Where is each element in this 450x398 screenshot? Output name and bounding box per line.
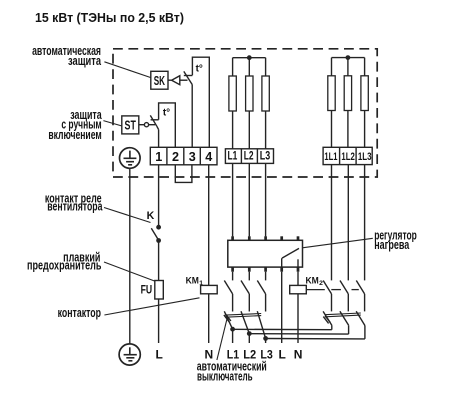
relay SK — [151, 71, 188, 89]
thermal contact t1 (SK sensor) — [184, 57, 210, 147]
svg-text:L2: L2 — [243, 349, 256, 361]
label: регулятор нагрева — [374, 229, 417, 253]
heater E1 — [229, 58, 236, 149]
svg-text:2: 2 — [319, 280, 323, 287]
wire L3 out — [265, 338, 267, 343]
svg-text:контактор: контактор — [58, 307, 102, 321]
wire terminal1 down — [158, 165, 160, 227]
heater bus 2 — [332, 57, 365, 59]
regulator U1 — [228, 240, 303, 267]
svg-text:1L1: 1L1 — [324, 150, 338, 163]
svg-text:L2: L2 — [244, 150, 254, 163]
pins U1 top — [233, 236, 298, 240]
heater bus 1 — [233, 57, 266, 59]
linkage KM2 — [306, 289, 359, 291]
wire KM2 to N — [297, 294, 299, 343]
contact KM1.3 — [257, 281, 265, 312]
wire pin2 to KM1 contact — [248, 272, 250, 281]
svg-text:t°: t° — [163, 108, 170, 119]
wire KM1 to N — [208, 294, 210, 343]
svg-text:1: 1 — [155, 150, 162, 164]
label: плавкий предохранитель — [27, 251, 101, 273]
leader to ST — [103, 121, 122, 126]
svg-text:FU: FU — [141, 284, 152, 297]
wire pin3 to KM1 contact — [265, 272, 267, 281]
breaker QF1 flag — [224, 314, 231, 322]
svg-text:t°: t° — [196, 64, 203, 75]
heater E2 — [246, 58, 253, 149]
heater E6 — [361, 58, 368, 148]
terminal block 1L1-1L3 — [323, 147, 372, 164]
svg-text:L: L — [279, 348, 286, 362]
label: контакт реле вентилятора — [45, 192, 103, 214]
wire pin1 to KM1 contact — [232, 272, 234, 281]
wire L3 column — [265, 163, 267, 236]
label: автоматический выключатель — [197, 360, 267, 384]
label: защита с ручным включением — [48, 108, 102, 142]
breaker QF1 pole2 — [241, 311, 249, 333]
wire pin4 to L — [281, 272, 283, 343]
wire terminal4 down — [208, 165, 210, 286]
svg-text:L3: L3 — [260, 349, 272, 362]
terminal block L1-L3 — [225, 149, 273, 164]
svg-text:выключатель: выключатель — [197, 370, 253, 384]
wire L1 out — [232, 329, 234, 343]
breaker QF2 pole1 — [323, 311, 332, 329]
svg-text:L3: L3 — [260, 150, 271, 162]
leader to K — [104, 208, 151, 223]
wire L2 column — [248, 163, 250, 236]
svg-text:4: 4 — [205, 150, 212, 164]
contact KM2.3 — [356, 281, 364, 312]
svg-text:включением: включением — [48, 128, 101, 142]
wire FU to L — [158, 299, 160, 343]
svg-text:L1: L1 — [228, 150, 238, 163]
leader to KM1 — [104, 298, 199, 315]
leader to SK — [104, 62, 150, 78]
heater E5 — [344, 58, 351, 148]
contactor coil KM2 — [290, 275, 323, 294]
contactor coil KM1 — [186, 275, 218, 294]
breaker QF1 pole1 — [224, 311, 232, 329]
svg-text:KM: KM — [186, 275, 199, 285]
svg-text:SK: SK — [154, 74, 165, 88]
jumper terminals 2-3 — [175, 165, 192, 183]
leader to breaker flag — [217, 318, 227, 360]
breaker QF1 pole3 — [257, 311, 265, 338]
thermal contact t2 (ST sensor) — [150, 103, 175, 147]
svg-text:ST: ST — [125, 119, 137, 133]
node bus1 — [247, 55, 252, 60]
wire L1 column — [232, 163, 234, 236]
dashed enclosure — [113, 49, 377, 177]
contact KM1.1 — [224, 281, 232, 312]
ground (PE) bottom — [119, 344, 140, 365]
svg-text:L: L — [156, 348, 163, 362]
label: автоматическая защита — [32, 44, 101, 68]
breaker QF1 linkage — [225, 314, 261, 318]
svg-text:предохранитель: предохранитель — [27, 259, 101, 273]
svg-text:3: 3 — [189, 150, 196, 164]
wire 1L3 down — [364, 165, 366, 281]
contact KM1.2 — [241, 281, 249, 312]
svg-text:нагрева: нагрева — [374, 239, 410, 253]
leader to regulator box — [302, 238, 373, 248]
svg-text:N: N — [294, 348, 303, 362]
terminal block 1-4 — [150, 147, 217, 165]
bus wire phase2 — [249, 333, 348, 335]
heater E4 — [328, 58, 335, 148]
wire K to FU — [158, 241, 160, 281]
node QF1 out2 — [247, 331, 252, 336]
svg-text:1L2: 1L2 — [341, 151, 354, 164]
breaker QF2 linkage — [325, 313, 361, 317]
wire 1L1 down — [331, 165, 333, 281]
svg-text:вентилятора: вентилятора — [47, 200, 103, 214]
svg-text:защита: защита — [68, 55, 102, 69]
svg-text:L1: L1 — [227, 349, 239, 362]
contact KM2.2 — [340, 281, 348, 312]
relay ST — [122, 116, 155, 134]
svg-text:1: 1 — [199, 280, 203, 287]
breaker QF2 pole2 — [340, 311, 349, 334]
contact KM2.1 — [323, 281, 331, 312]
bus wire phase1 — [233, 328, 332, 330]
svg-text:1L3: 1L3 — [358, 151, 372, 164]
pins U1 bottom — [233, 267, 298, 272]
svg-text:KM: KM — [306, 275, 319, 285]
node bus2 — [346, 55, 351, 60]
bus wire phase3 — [266, 338, 365, 340]
svg-text:N: N — [204, 348, 213, 362]
node QF1 out3 — [263, 336, 268, 341]
wire PE vertical — [129, 168, 131, 344]
fuse FU — [141, 281, 164, 300]
breaker QF2 pole3 — [356, 311, 365, 339]
svg-text:15 кВт (ТЭНы по 2,5 кВт): 15 кВт (ТЭНы по 2,5 кВт) — [35, 11, 184, 25]
heater E3 — [262, 58, 269, 149]
leader to FU — [104, 262, 155, 281]
node QF1 out1 — [230, 327, 235, 332]
wire pin5 to KM2 coil — [297, 272, 299, 286]
breaker QF2 flag — [323, 316, 330, 324]
ground (PE) top — [120, 148, 141, 169]
svg-text:K: K — [147, 210, 155, 222]
wire L2 out — [248, 334, 250, 343]
wire 1L2 down — [347, 165, 349, 281]
svg-text:2: 2 — [172, 150, 179, 164]
contact K — [147, 210, 161, 243]
